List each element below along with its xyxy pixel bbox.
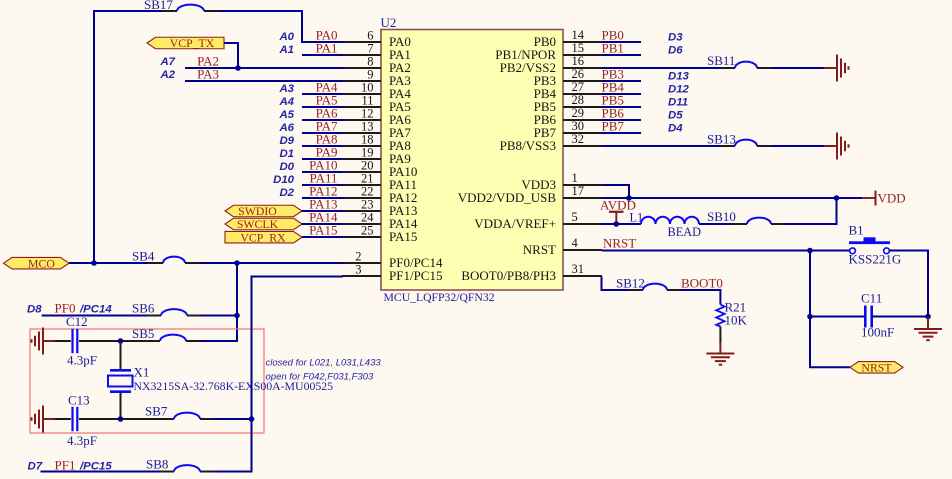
junction C11 right [925, 314, 931, 320]
wire PB3 [602, 80, 641, 82]
wire SB12 to R21 [681, 290, 720, 305]
wire NRST to button B1 [602, 250, 850, 252]
U2 pin 24 (PA14) [342, 211, 418, 232]
solder bridge SB10 [707, 209, 786, 224]
capacitor C12 [66, 314, 97, 368]
port VCP_RX [225, 231, 302, 245]
svg-text:D1: D1 [279, 148, 294, 160]
node PA10 net label [279, 158, 337, 174]
node PA11 net label [273, 171, 337, 187]
wire SB17 to pin PA0 [219, 11, 343, 42]
node PB4 net label [602, 80, 690, 96]
ground (SB13) [824, 133, 849, 160]
svg-text:PA3: PA3 [197, 67, 219, 82]
svg-text:16: 16 [572, 54, 585, 68]
svg-text:SB13: SB13 [707, 132, 736, 147]
svg-text:30: 30 [572, 119, 585, 133]
U2 pin 14 (PB0) [534, 28, 602, 49]
wire C13 to SB7 [79, 418, 160, 420]
svg-text:D3: D3 [668, 32, 683, 44]
svg-text:D2: D2 [279, 187, 294, 199]
wire PA1 [302, 54, 343, 56]
node PA2 net label [159, 54, 219, 69]
wire D8 row to SB6 [42, 315, 147, 317]
capacitor C13 [67, 393, 97, 449]
node D7 / PF1 / PC15 labels [28, 458, 113, 473]
junction crystal bottom [118, 416, 124, 422]
U2 pin 27 (PB4) [534, 80, 602, 101]
svg-text:4: 4 [572, 236, 579, 250]
svg-text:13: 13 [361, 120, 374, 134]
U2 pin 1 (VDD3) [521, 171, 602, 192]
svg-text:14: 14 [572, 28, 585, 42]
svg-text:A6: A6 [278, 122, 294, 134]
svg-text:4.3pF: 4.3pF [67, 433, 97, 448]
node PA7 net label [278, 119, 338, 135]
wire PA13 [302, 210, 343, 212]
junction PF0 branch [234, 260, 240, 266]
wire PB2/VSS2 to SB11 [602, 67, 721, 69]
U2 pin 3 (PF1/PC15) [342, 263, 442, 284]
node PA3 net label [159, 67, 219, 82]
svg-text:VCP_RX: VCP_RX [240, 231, 286, 245]
svg-text:D9: D9 [279, 135, 294, 147]
node PA13 net label [309, 197, 337, 212]
U2 pin 21 (PA11) [342, 172, 417, 193]
svg-text:29: 29 [572, 106, 585, 120]
U2 pin 28 (PB5) [534, 93, 602, 114]
node PB7 net label [602, 119, 684, 135]
solder bridge SB12 [616, 276, 681, 291]
junction SB7 tee [249, 416, 255, 422]
red option box [30, 329, 264, 433]
wire ground to C12 [55, 340, 71, 342]
wire PB7 [602, 132, 641, 134]
wire D7 row to SB8 [41, 471, 161, 473]
port SWDIO [225, 204, 302, 218]
solder bridge SB11 [707, 53, 771, 68]
svg-text:12: 12 [361, 107, 374, 121]
inductor L1 BEAD [630, 211, 702, 240]
svg-text:6: 6 [367, 29, 373, 43]
node PA8 net label [279, 132, 337, 148]
svg-text:PA15: PA15 [309, 223, 337, 238]
U2 pin 8 (PA2) [342, 55, 411, 76]
IC U2 (MCU) body [381, 30, 563, 291]
node PA14 net label [309, 210, 338, 225]
wire PA14 [302, 223, 343, 225]
U2 pin 4 (NRST) [523, 236, 602, 257]
svg-text:PF1/PC15: PF1/PC15 [389, 268, 442, 283]
solder bridge SB17 [144, 0, 219, 12]
crystal X1 [108, 365, 333, 394]
svg-text:NRST: NRST [603, 236, 636, 251]
svg-text:BOOT0: BOOT0 [681, 276, 723, 291]
U2 pin 32 (PB8/VSS3) [500, 132, 602, 153]
solder bridge SB7 [145, 404, 214, 420]
svg-text:C12: C12 [66, 314, 88, 329]
ground (R21) [706, 342, 734, 365]
resistor R21 10K [716, 300, 747, 328]
svg-text:21: 21 [361, 172, 374, 186]
svg-text:SB10: SB10 [707, 209, 736, 224]
svg-text:D4: D4 [668, 123, 683, 135]
U2 pin 30 (PB7) [534, 119, 602, 140]
node PA6 net label [278, 106, 338, 122]
svg-text:X1: X1 [134, 365, 150, 380]
svg-text:24: 24 [361, 211, 374, 225]
svg-text:D13: D13 [668, 71, 690, 83]
node D8 / PF0 / PC14 labels [27, 301, 112, 316]
ground (crystal C13) [32, 406, 57, 433]
U2 pin 18 (PA8) [342, 133, 411, 154]
node PA1 net label [278, 41, 337, 57]
svg-text:SB6: SB6 [132, 301, 155, 316]
wire PB6 [602, 119, 641, 121]
svg-text:A5: A5 [278, 109, 294, 121]
svg-text:1: 1 [572, 171, 578, 185]
svg-text:10K: 10K [725, 313, 748, 328]
svg-text:SB5: SB5 [132, 326, 154, 341]
svg-text:KSS221G: KSS221G [849, 252, 902, 267]
wire C12 to SB5 [79, 340, 146, 342]
wire MCO to SB4 [69, 262, 147, 264]
svg-text:A0: A0 [278, 31, 294, 43]
svg-text:PB8/VSS3: PB8/VSS3 [500, 138, 556, 153]
svg-text:NRST: NRST [861, 361, 892, 375]
svg-text:SB17: SB17 [144, 0, 173, 12]
svg-text:19: 19 [361, 146, 374, 160]
svg-text:VDD2/VDD_USB: VDD2/VDD_USB [458, 190, 557, 205]
U2 pin 12 (PA6) [342, 107, 411, 128]
junction VCP_TX/PA2 [235, 65, 241, 71]
wire C11 left [810, 316, 865, 318]
U2 pin 2 (PF0/PC14) [342, 250, 443, 271]
note closed/open text [266, 358, 382, 383]
svg-text:A4: A4 [278, 96, 294, 108]
svg-text:SB11: SB11 [707, 53, 735, 68]
svg-text:25: 25 [361, 224, 374, 238]
svg-text:PF1: PF1 [55, 458, 76, 473]
wire VDDA/VREF+ to L1 [602, 223, 641, 225]
svg-text:A3: A3 [278, 83, 294, 95]
wire PA5 [302, 106, 343, 108]
U2 pin 13 (PA7) [342, 120, 411, 141]
node PA9 net label [279, 145, 337, 161]
svg-text:D6: D6 [668, 45, 683, 57]
svg-text:100nF: 100nF [861, 325, 894, 340]
svg-text:VDDA/VREF+: VDDA/VREF+ [474, 216, 556, 231]
U2 pin 16 (PB2/VSS2) [500, 54, 602, 75]
U2 pin 15 (PB1/NPOR) [495, 41, 602, 62]
junction MCO/SB17 vertical [91, 260, 97, 266]
wire SB6 to branch vertical [201, 315, 237, 317]
port VCP_TX [147, 36, 224, 50]
svg-text:9: 9 [367, 68, 373, 82]
svg-text:3: 3 [355, 263, 361, 277]
button B1 KSS221G [849, 223, 902, 267]
node PB0 net label [602, 28, 684, 44]
U2 part name MCU_LQFP32/QFN32 [384, 291, 495, 304]
wire SB13 to ground [771, 145, 824, 147]
U2 pin 19 (PA9) [342, 146, 411, 167]
svg-text:U2: U2 [381, 15, 397, 30]
wire SB10 to VDD rail [786, 198, 837, 224]
wire PA6 [302, 119, 343, 121]
wire PA10 [302, 171, 343, 173]
svg-text:C11: C11 [861, 291, 882, 306]
wire VDD2/VDD_USB rail [602, 197, 862, 199]
svg-text:L1: L1 [630, 211, 644, 225]
svg-text:7: 7 [367, 42, 373, 56]
ground (C11) [914, 318, 942, 341]
svg-text:D11: D11 [668, 97, 688, 109]
wire net MCO to SB17 (left vertical + top run) [94, 11, 162, 263]
svg-text:SB4: SB4 [132, 249, 155, 264]
wire BOOT0 pin to SB12 [602, 277, 630, 291]
svg-text:26: 26 [572, 67, 585, 81]
U2 pin 9 (PA3) [342, 68, 411, 89]
wire SB11 to ground [771, 67, 824, 69]
wire SB8 to pin PF1/PC15 [214, 277, 343, 472]
U2 pin 31 (BOOT0/PB8/PH3) [461, 262, 602, 283]
node PA5 net label [278, 93, 337, 109]
svg-text:28: 28 [572, 93, 585, 107]
svg-text:2: 2 [355, 250, 361, 264]
wire PB5 [602, 106, 641, 108]
svg-text:A1: A1 [278, 44, 294, 56]
U2 pin 5 (VDDA/VREF+) [474, 210, 602, 231]
svg-text:D8: D8 [27, 304, 42, 316]
svg-text:18: 18 [361, 133, 374, 147]
svg-text:20: 20 [361, 159, 374, 173]
svg-text:27: 27 [572, 80, 585, 94]
solder bridge SB6 [132, 301, 201, 316]
U2 pin 25 (PA15) [342, 224, 417, 245]
svg-text:D10: D10 [273, 174, 295, 186]
wire PA8 [302, 145, 343, 147]
svg-text:PA1: PA1 [316, 41, 338, 56]
svg-text:22: 22 [361, 185, 374, 199]
svg-text:NRST: NRST [523, 242, 556, 257]
wire NRST branch vertical to port [810, 251, 850, 368]
node PA0 net label [278, 28, 337, 44]
svg-text:C13: C13 [68, 393, 90, 408]
svg-text:SB7: SB7 [145, 404, 168, 419]
wire PA4 [302, 93, 343, 95]
svg-text:PA15: PA15 [389, 229, 417, 244]
wire SB7 to PF1 vertical [214, 418, 252, 420]
port MCO [4, 256, 70, 270]
wire PB4 [602, 93, 641, 95]
wire PA11 [302, 184, 343, 186]
node PB3 net label [602, 67, 690, 83]
solder bridge SB13 [707, 132, 771, 147]
wire VCP_TX to PA2 [224, 43, 238, 68]
svg-text:10: 10 [361, 81, 374, 95]
node PA15 net label [309, 223, 337, 238]
svg-text:D12: D12 [668, 84, 690, 96]
junction VDD3/rail [626, 195, 632, 201]
svg-text:11: 11 [361, 94, 373, 108]
svg-text:D0: D0 [279, 161, 294, 173]
svg-text:SB12: SB12 [616, 276, 645, 291]
wire PB0 [602, 41, 641, 43]
wire PA12 [302, 197, 343, 199]
svg-text:17: 17 [572, 184, 585, 198]
U2 pin 29 (PB6) [534, 106, 602, 127]
wire B1 to C11 right [890, 251, 929, 317]
wire crystal column bottom [120, 393, 122, 419]
U2 pin 6 (PA0) [342, 29, 411, 50]
svg-text:SB8: SB8 [146, 457, 168, 472]
node PB5 net label [602, 93, 689, 109]
wire PA15 [302, 236, 343, 238]
svg-text:5: 5 [572, 210, 578, 224]
power symbol AVDD [600, 198, 636, 225]
svg-text:BEAD: BEAD [668, 225, 702, 239]
svg-text:23: 23 [361, 198, 374, 212]
svg-text:B1: B1 [849, 223, 864, 238]
wire PA7 [302, 132, 343, 134]
solder bridge SB4 [132, 249, 200, 264]
svg-text:32: 32 [572, 132, 585, 146]
U2 pin 11 (PA5) [342, 94, 411, 115]
svg-text:VCP_TX: VCP_TX [170, 36, 215, 50]
solder bridge SB8 [146, 457, 214, 472]
wire PA3 [185, 80, 343, 82]
node NRST net label [603, 236, 636, 251]
svg-text:BOOT0/PB8/PH3: BOOT0/PB8/PH3 [461, 268, 556, 283]
U2 designator [381, 15, 397, 30]
U2 pin 26 (PB3) [534, 67, 602, 88]
node PB6 net label [602, 106, 684, 122]
svg-text:A2: A2 [159, 69, 175, 81]
svg-text:PB1: PB1 [602, 41, 624, 56]
svg-text:15: 15 [572, 41, 585, 55]
U2 pin 10 (PA4) [342, 81, 411, 102]
junction AVDD [614, 221, 620, 227]
wire PA9 [302, 158, 343, 160]
wire L1 to SB10 [699, 223, 732, 225]
svg-text:8: 8 [367, 55, 373, 69]
svg-text:A7: A7 [159, 56, 175, 68]
svg-text:VDD: VDD [878, 191, 906, 206]
wire crystal column top [120, 341, 122, 369]
svg-text:SWCLK: SWCLK [237, 217, 279, 231]
svg-text:D5: D5 [668, 110, 683, 122]
node BOOT0 net label [681, 276, 723, 291]
wire ground to C13 [55, 418, 71, 420]
port NRST [850, 361, 903, 375]
svg-text:4.3pF: 4.3pF [67, 353, 97, 368]
junction NRST branch [807, 248, 813, 254]
U2 pin 23 (PA13) [342, 198, 417, 219]
solder bridge SB5 [132, 326, 200, 341]
junction SB10/rail [834, 195, 840, 201]
U2 pin 17 (VDD2/VDD_USB) [458, 184, 602, 205]
ground (SB11) [824, 55, 849, 82]
node PA4 net label [278, 80, 338, 96]
U2 pin 22 (PA12) [342, 185, 417, 206]
junction SB6 tee [234, 313, 240, 319]
node PB1 net label [602, 41, 684, 57]
wire SB4 to pin PF0/PC14 [200, 262, 343, 264]
wire R21 to ground [719, 327, 721, 343]
svg-text:MCU_LQFP32/QFN32: MCU_LQFP32/QFN32 [384, 291, 495, 304]
port SWCLK [225, 217, 302, 231]
U2 pin 20 (PA10) [342, 159, 417, 180]
capacitor C11 [861, 291, 894, 340]
wire PB1 [602, 54, 641, 56]
node PA12 net label [279, 184, 337, 200]
svg-text:SWDIO: SWDIO [238, 204, 277, 218]
junction C11 left [807, 314, 813, 320]
svg-text:closed for L021, L031,L433: closed for L021, L031,L433 [266, 358, 382, 369]
U2 pin 7 (PA1) [342, 42, 411, 63]
svg-text:PB7: PB7 [602, 119, 625, 134]
ground (crystal C12) [32, 328, 57, 355]
svg-text:NX3215SA-32.768K-EXS00A-MU0052: NX3215SA-32.768K-EXS00A-MU00525 [134, 379, 334, 393]
power symbol VDD [862, 191, 906, 206]
wire VDD3 to rail [602, 185, 629, 198]
wire PF0 branch vertical to SB6/SB5 [200, 263, 237, 341]
svg-text:MCO: MCO [28, 256, 55, 270]
svg-text:31: 31 [572, 262, 585, 276]
wire PB8/VSS3 to SB13 [602, 145, 721, 147]
svg-text:D7: D7 [28, 461, 43, 473]
wire PA2 [185, 67, 343, 69]
junction crystal top [118, 338, 124, 344]
wire C11 right [872, 316, 928, 318]
